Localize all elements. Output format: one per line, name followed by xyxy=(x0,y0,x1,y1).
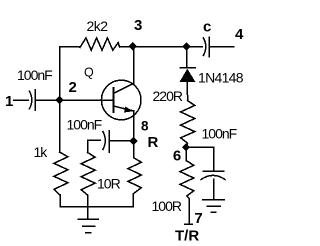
svg-text:1k: 1k xyxy=(34,144,49,160)
resistor 10R zigzag xyxy=(81,153,95,196)
svg-text:2k2: 2k2 xyxy=(87,18,109,34)
wire input from terminal 1 xyxy=(14,99,29,101)
node 8 junction dot xyxy=(129,137,137,145)
capacitor C2 flat plate xyxy=(108,131,110,152)
terminal 7 end tick xyxy=(185,223,192,225)
resistor 220R zigzag xyxy=(181,101,195,148)
wire top rail left segment xyxy=(60,46,81,48)
svg-text:100nF: 100nF xyxy=(67,117,102,133)
wire emitter vertical to node 8 xyxy=(133,111,135,158)
transistor Q1 emitter arrowhead xyxy=(124,106,133,112)
svg-text:Q: Q xyxy=(84,66,94,80)
ground right bar 1 xyxy=(203,199,224,201)
resistor 1k zigzag xyxy=(54,152,68,207)
wire collector vertical from node 3 xyxy=(133,47,135,84)
transistor Q1 base bar xyxy=(112,88,114,112)
wire C2 to node 8 xyxy=(110,140,134,142)
wire ground stem xyxy=(87,195,89,219)
wire C2 left bracket to 10R top xyxy=(88,140,100,152)
svg-text:4: 4 xyxy=(235,26,244,43)
svg-text:1N4148: 1N4148 xyxy=(198,70,244,86)
svg-text:6: 6 xyxy=(173,147,181,164)
wire bottom rail xyxy=(60,206,133,208)
svg-text:1: 1 xyxy=(5,93,13,110)
wire top rail middle segment xyxy=(120,46,203,48)
wire node 6 to 100R xyxy=(185,147,187,160)
capacitor c flat plate xyxy=(208,37,210,57)
ground main bar 2 xyxy=(83,225,95,227)
diode D1 triangle xyxy=(180,69,196,82)
wire node 6 to capacitor C4 xyxy=(186,147,214,171)
svg-text:7: 7 xyxy=(194,210,202,227)
transistor Q1 circle xyxy=(101,80,141,120)
svg-text:100nF: 100nF xyxy=(202,126,237,142)
wire diode anode to 220R xyxy=(186,82,188,101)
wire base from node 2 xyxy=(60,99,114,101)
capacitor C4 curved plate xyxy=(201,175,225,179)
capacitor C1 flat plate xyxy=(34,90,36,111)
junction dot at diode top xyxy=(182,42,190,50)
capacitor C4 flat plate xyxy=(203,170,224,172)
resistor 2k2 zigzag xyxy=(80,38,120,50)
node 3 junction dot xyxy=(128,42,136,50)
svg-text:220R: 220R xyxy=(153,88,183,104)
ground main bar 3 xyxy=(86,232,91,234)
resistor R (emitter) zigzag xyxy=(128,158,141,207)
wire C4 to ground xyxy=(213,179,215,199)
svg-text:100R: 100R xyxy=(152,198,182,214)
node 2 junction dot xyxy=(55,96,64,105)
svg-text:T/R: T/R xyxy=(175,228,199,245)
transistor Q1 emitter diagonal xyxy=(113,106,133,111)
wire c to terminal 4 xyxy=(210,46,234,48)
svg-text:3: 3 xyxy=(134,17,142,34)
wire junction to diode cathode xyxy=(186,47,188,68)
resistor 100R zigzag xyxy=(180,161,194,224)
transistor Q1 collector diagonal xyxy=(113,83,133,93)
diode D1 cathode bar xyxy=(180,67,195,69)
capacitor c curved plate xyxy=(203,38,205,55)
svg-text:10R: 10R xyxy=(97,176,121,192)
ground main bar 1 xyxy=(78,218,98,220)
svg-text:2: 2 xyxy=(69,79,77,96)
wire C1 to node 2 xyxy=(36,99,60,101)
wire left column node2 vertical (rail corner to 1k top) xyxy=(59,47,61,153)
svg-text:c: c xyxy=(203,19,211,36)
capacitor C1 curved plate xyxy=(29,91,31,109)
svg-text:100nF: 100nF xyxy=(17,67,52,83)
ground right bar 2 xyxy=(207,205,220,207)
node 6 junction dot xyxy=(182,143,190,151)
capacitor C2 curved plate xyxy=(103,132,105,150)
ground right bar 3 xyxy=(211,211,216,213)
svg-text:R: R xyxy=(148,134,159,151)
svg-text:8: 8 xyxy=(141,119,149,134)
